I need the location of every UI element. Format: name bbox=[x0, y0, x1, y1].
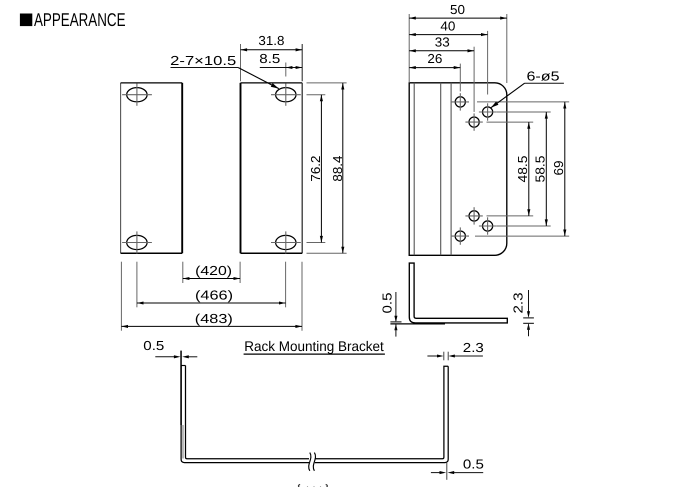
svg-text:2.3: 2.3 bbox=[511, 293, 526, 314]
svg-text:58.5: 58.5 bbox=[533, 156, 548, 183]
svg-text:(420): (420) bbox=[195, 263, 232, 278]
svg-text:6-ø5: 6-ø5 bbox=[527, 69, 560, 84]
svg-text:31.8: 31.8 bbox=[258, 33, 284, 48]
svg-text:APPEARANCE: APPEARANCE bbox=[34, 9, 126, 30]
svg-text:48.5: 48.5 bbox=[515, 156, 530, 183]
svg-text:0.5: 0.5 bbox=[143, 338, 164, 353]
svg-text:8.5: 8.5 bbox=[259, 51, 280, 66]
svg-text:2-7×10.5: 2-7×10.5 bbox=[170, 53, 236, 68]
svg-text:0.5: 0.5 bbox=[379, 293, 394, 314]
svg-text:40: 40 bbox=[440, 19, 455, 34]
svg-text:50: 50 bbox=[450, 2, 465, 17]
svg-text:26: 26 bbox=[427, 51, 442, 66]
svg-text:76.2: 76.2 bbox=[308, 156, 323, 182]
svg-text:(466): (466) bbox=[195, 288, 233, 303]
svg-text:69: 69 bbox=[551, 161, 566, 176]
svg-text:(483): (483) bbox=[195, 311, 233, 326]
svg-text:33: 33 bbox=[435, 35, 450, 50]
svg-text:0.5: 0.5 bbox=[463, 456, 484, 471]
svg-text:Rack Mounting Bracket: Rack Mounting Bracket bbox=[244, 338, 384, 354]
svg-text:88.4: 88.4 bbox=[330, 156, 345, 182]
svg-text:2.3: 2.3 bbox=[463, 340, 484, 355]
